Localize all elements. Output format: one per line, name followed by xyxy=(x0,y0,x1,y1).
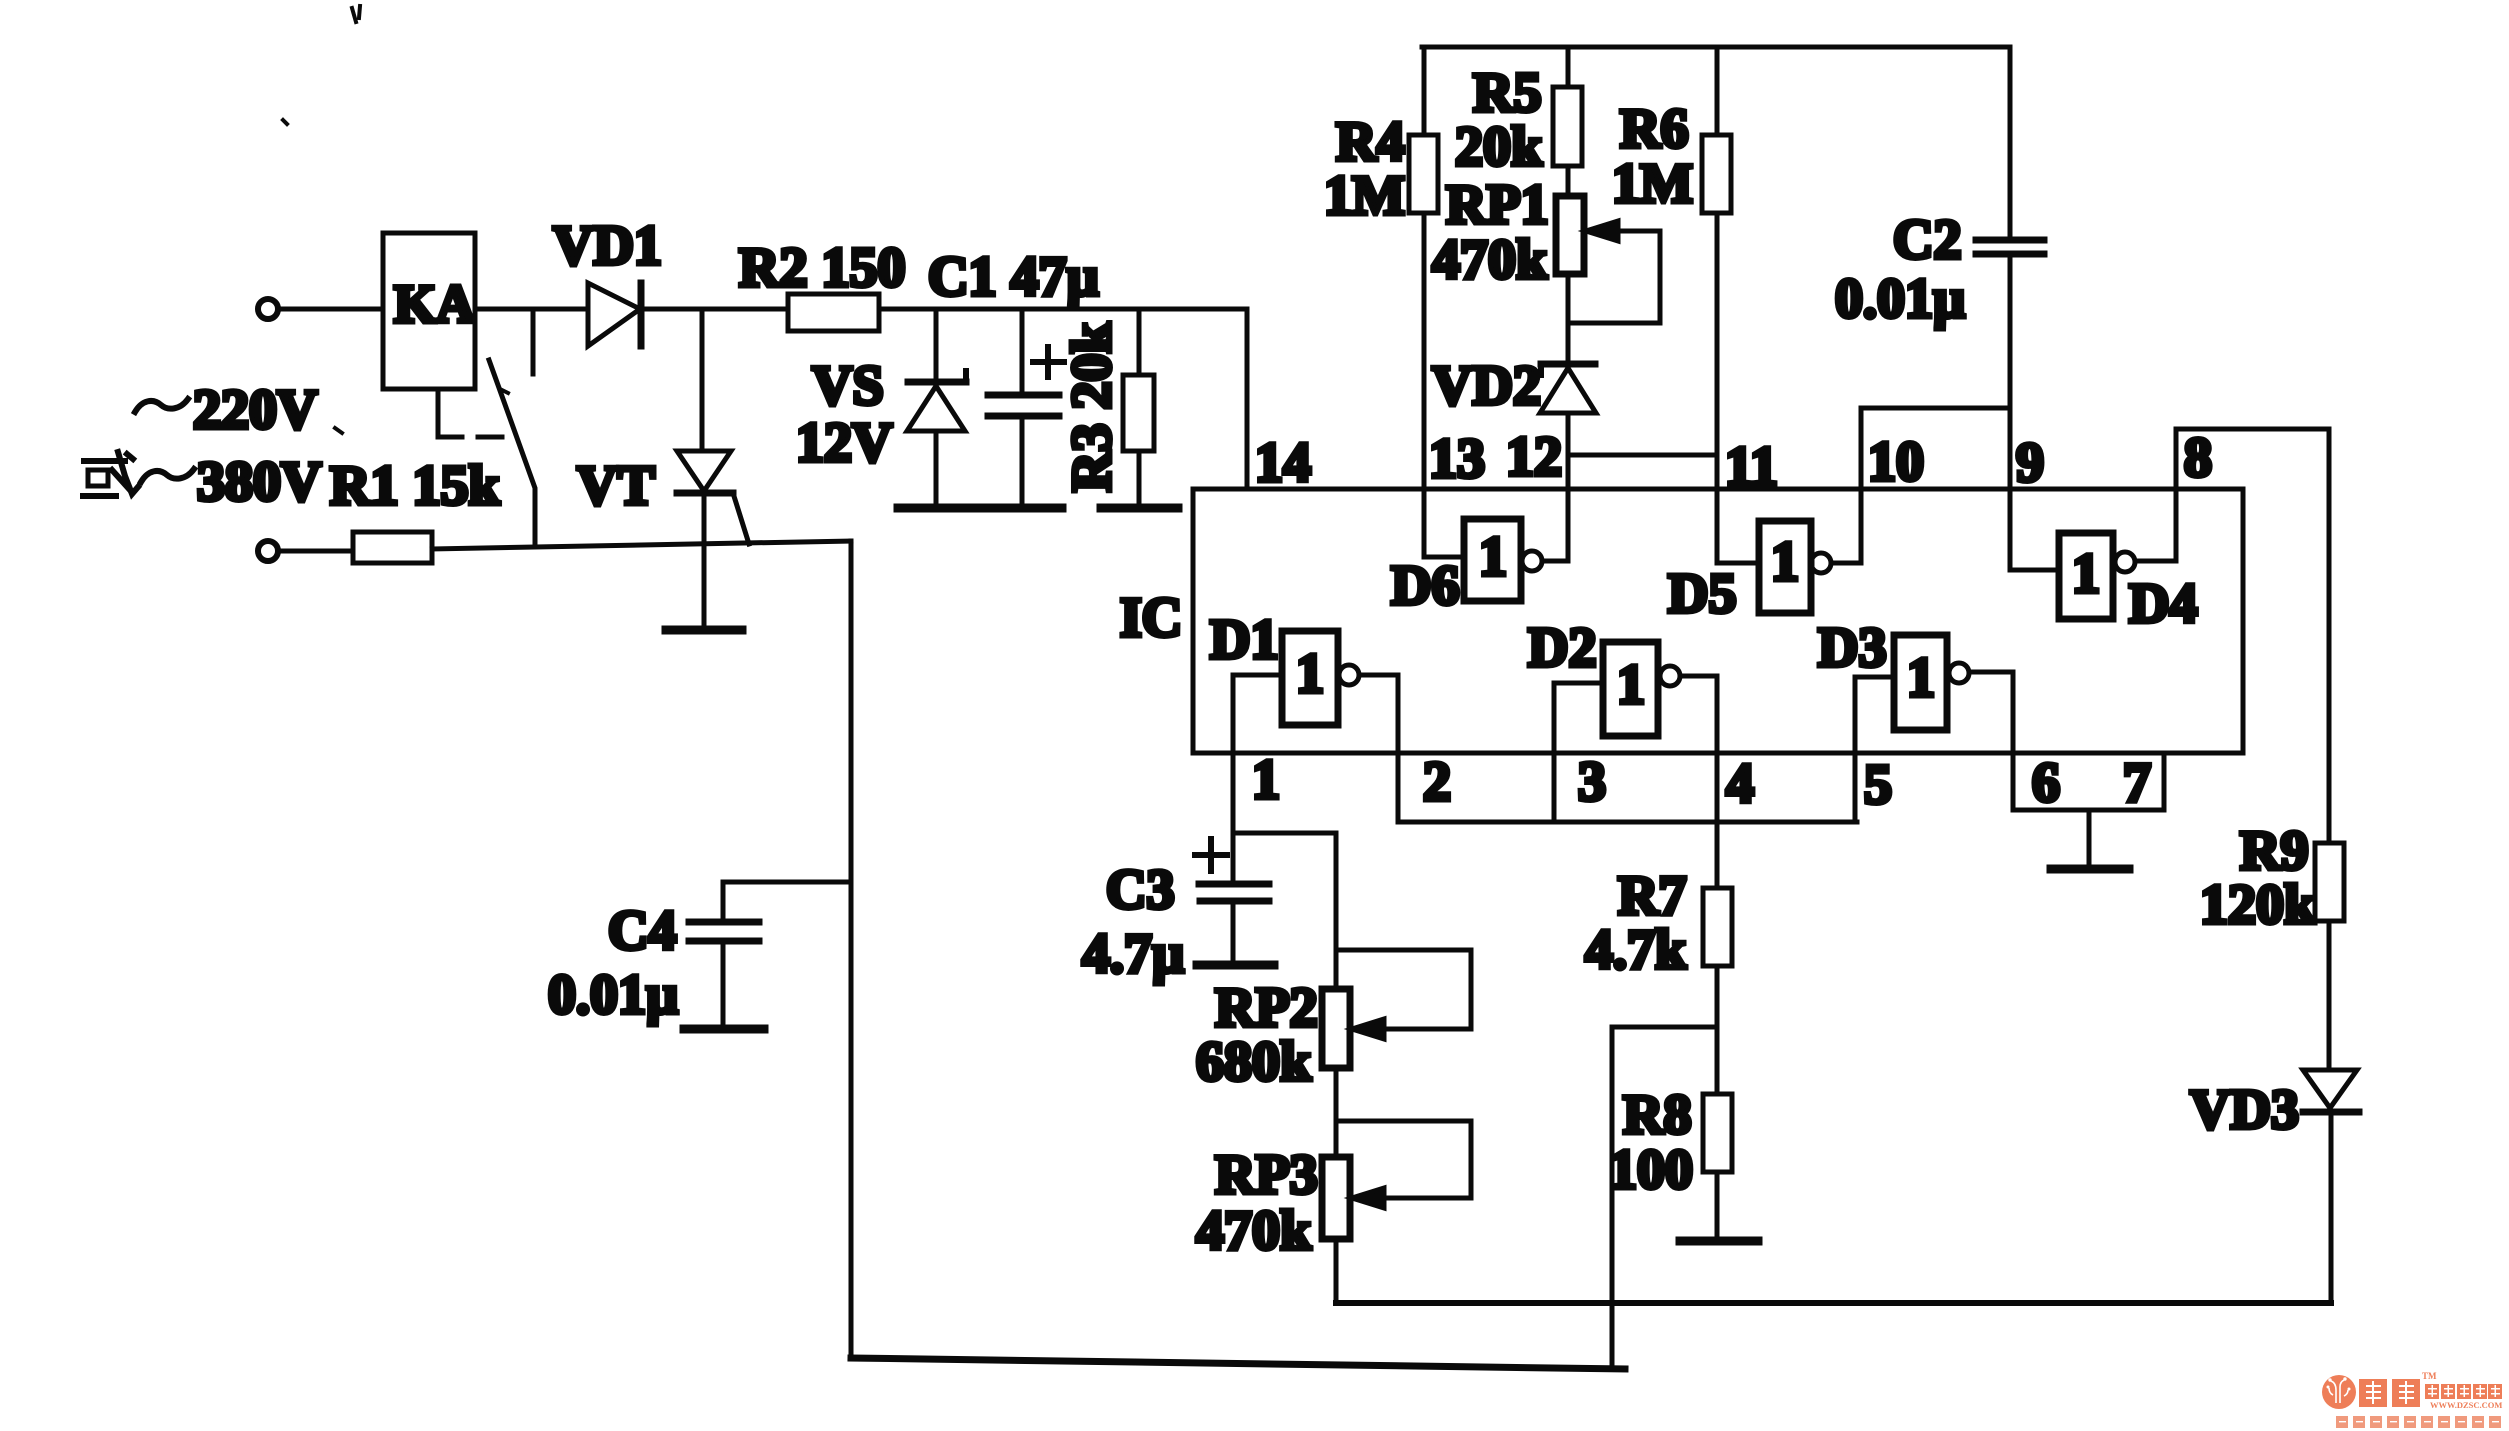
wire VD3 to bottom bus A xyxy=(2329,1112,2334,1303)
svg-text:D1: D1 xyxy=(1210,609,1278,671)
svg-text:7: 7 xyxy=(2123,752,2151,814)
KA actuator stub xyxy=(436,389,441,437)
wire pin 10 riser xyxy=(1859,408,1864,563)
watermark logo circle xyxy=(2322,1375,2356,1409)
svg-text:20k: 20k xyxy=(1455,116,1543,178)
svg-text:C2: C2 xyxy=(1893,209,1961,271)
svg-text:R6: R6 xyxy=(1620,98,1688,160)
svg-text:1M: 1M xyxy=(1324,165,1405,227)
svg-text:R4: R4 xyxy=(1336,111,1404,173)
wire R9 to VD3 xyxy=(2327,921,2332,1070)
svg-text:RP3: RP3 xyxy=(1215,1144,1318,1206)
capacitor C4 0.01u xyxy=(548,882,851,1029)
svg-text:1: 1 xyxy=(2072,543,2100,605)
svg-text:1: 1 xyxy=(1296,643,1324,705)
wire pins 6-7 join xyxy=(2013,808,2164,813)
svg-text:1: 1 xyxy=(1252,749,1280,811)
potentiometer RP2 680k xyxy=(1196,950,1471,1093)
svg-text:0.01µ: 0.01µ xyxy=(1835,268,1965,330)
IC box xyxy=(1193,489,2243,753)
svg-text:VD1: VD1 xyxy=(553,215,662,277)
svg-text:D4: D4 xyxy=(2129,573,2197,635)
svg-text:R7: R7 xyxy=(1618,865,1686,927)
svg-text:12: 12 xyxy=(1506,426,1562,488)
zener VS 12V xyxy=(796,309,966,504)
svg-text:470k: 470k xyxy=(1196,1200,1312,1262)
svg-text:0.01µ: 0.01µ xyxy=(548,964,678,1026)
wire junction link to R7-R8 xyxy=(1612,1025,1717,1030)
wire to ground pins 6-7 xyxy=(2087,810,2092,865)
resistor R5 20k xyxy=(1455,47,1582,178)
wire R1 to VT gate and corner xyxy=(432,541,851,549)
diode VD1 xyxy=(553,215,662,346)
zener VD2 xyxy=(1432,355,1596,417)
ground under R8 xyxy=(1680,1237,1758,1246)
resistor R3 20k xyxy=(1061,309,1154,504)
svg-text:13: 13 xyxy=(1429,428,1485,490)
wire T1 to KA xyxy=(279,307,383,312)
svg-text:TM: TM xyxy=(2422,1371,2437,1381)
diode VD3 xyxy=(2190,1070,2359,1141)
svg-text:C1 47µ: C1 47µ xyxy=(928,246,1099,308)
svg-text:IC: IC xyxy=(1120,587,1182,649)
svg-text:R8: R8 xyxy=(1623,1084,1691,1146)
svg-text:1: 1 xyxy=(1907,647,1935,709)
svg-text:1: 1 xyxy=(1479,526,1507,588)
wire R4 to pin 13 xyxy=(1422,213,1427,489)
wire R6 to pin 11 xyxy=(1715,213,1720,489)
svg-text:VT: VT xyxy=(577,455,655,517)
svg-text:5: 5 xyxy=(1864,754,1892,816)
resistor R4 1M xyxy=(1324,47,1438,227)
svg-text:3: 3 xyxy=(1578,751,1606,813)
potentiometer RP1 470k xyxy=(1432,174,1660,323)
label ~220V xyxy=(135,399,188,412)
resistor R9 120k xyxy=(2200,820,2344,936)
svg-text:2: 2 xyxy=(1423,751,1451,813)
thyristor VT xyxy=(577,309,749,626)
svg-text:RP1: RP1 xyxy=(1446,174,1549,236)
ground under C1 xyxy=(985,504,1062,513)
inverter D1 xyxy=(1210,609,1398,725)
wire pin 2 drop (D1 out) xyxy=(1396,675,1401,822)
wire pin 1 drop xyxy=(1231,675,1236,833)
bus pins 2-3-5 below IC xyxy=(1398,820,1857,825)
inverter D5 xyxy=(1668,489,1861,625)
capacitor C3 4.7u xyxy=(1082,833,1274,985)
svg-text:380V: 380V xyxy=(197,451,321,513)
wire right side drop to R9 xyxy=(2327,429,2332,843)
bottom bus B (left drop to riser) xyxy=(851,1358,1625,1369)
svg-text:1M: 1M xyxy=(1612,153,1693,215)
svg-text:R3 20k: R3 20k xyxy=(1061,322,1123,492)
svg-text:KA: KA xyxy=(394,274,475,334)
svg-text:100: 100 xyxy=(1609,1139,1693,1201)
wire pin 6 drop (D3 out) xyxy=(2011,672,2016,810)
svg-text:1: 1 xyxy=(1617,654,1645,716)
wire pin10 to C2 line xyxy=(1861,406,2010,411)
watermark 电子市场网 glyph blocks xyxy=(2425,1384,2502,1399)
potentiometer RP3 470k xyxy=(1196,1121,1471,1262)
inverter D4 xyxy=(2010,533,2197,635)
wire KA to VD1 xyxy=(475,307,588,312)
wire pin 14 drop xyxy=(1245,309,1250,489)
svg-text:D2: D2 xyxy=(1528,617,1596,679)
wire RP2 to RP3 xyxy=(1334,1068,1339,1157)
svg-text:8: 8 xyxy=(2184,427,2212,489)
ground under pins 6-7 xyxy=(2051,865,2129,874)
svg-text:9: 9 xyxy=(2016,432,2044,494)
svg-text:120k: 120k xyxy=(2200,874,2316,936)
KA switch arm xyxy=(489,360,535,546)
svg-text:470k: 470k xyxy=(1432,229,1548,291)
terminal T1 (upper input) xyxy=(258,299,278,319)
svg-text:4.7µ: 4.7µ xyxy=(1082,923,1184,985)
label 或~380V (或 drawn as strokes) xyxy=(83,452,138,496)
resistor R6 1M xyxy=(1612,47,1731,215)
svg-text:1: 1 xyxy=(1771,531,1799,593)
wire R7 to R8 xyxy=(1715,966,1720,1094)
svg-text:6: 6 xyxy=(2032,752,2060,814)
svg-text:C3: C3 xyxy=(1106,859,1174,921)
svg-text:4: 4 xyxy=(1726,753,1754,815)
inverter D6 xyxy=(1391,489,1568,617)
resistor R1 15k xyxy=(330,455,500,563)
watermark 维库 glyph blocks xyxy=(2359,1371,2437,1407)
wire VD2 to pin 12 xyxy=(1566,413,1571,489)
svg-text:VD3: VD3 xyxy=(2190,1079,2299,1141)
wire long left drop to bottom bus xyxy=(849,541,854,1358)
svg-text:10: 10 xyxy=(1868,431,1924,493)
resistor R2 150 xyxy=(739,237,905,331)
svg-text:R5: R5 xyxy=(1473,62,1541,124)
wire pin1 junction to RP2 chain xyxy=(1233,831,1336,836)
relay coil KA xyxy=(383,233,475,389)
KA actuator dashed link xyxy=(438,435,516,440)
svg-text:RP2: RP2 xyxy=(1215,977,1318,1039)
bottom bus A (RP3 to VD3) xyxy=(1336,1300,2331,1306)
ground under VT xyxy=(666,626,742,635)
wire riser bus B to R7-R8 junction xyxy=(1610,1027,1615,1369)
svg-text:VS: VS xyxy=(812,355,884,417)
svg-text:14: 14 xyxy=(1255,432,1311,494)
svg-text:11: 11 xyxy=(1725,436,1778,498)
ground under VS xyxy=(898,504,978,513)
wire T2 to R1 xyxy=(279,549,353,554)
svg-text:R1 15k: R1 15k xyxy=(330,455,500,517)
svg-text:220V: 220V xyxy=(193,379,317,441)
svg-text:4.7k: 4.7k xyxy=(1585,919,1687,981)
wire pin8 top link xyxy=(2176,427,2329,432)
svg-text:WWW.DZSC.COM: WWW.DZSC.COM xyxy=(2430,1400,2502,1410)
wire pin 7 drop xyxy=(2162,753,2167,810)
capacitor C1 47u xyxy=(928,246,1099,504)
svg-text:R2 150: R2 150 xyxy=(739,237,905,299)
svg-text:VD2: VD2 xyxy=(1432,355,1541,417)
wire RP1 to VD2 xyxy=(1566,274,1571,364)
KA fixed switch contact stub xyxy=(531,309,536,374)
wire R5 to RP1 xyxy=(1566,166,1571,196)
wire pin 8 riser xyxy=(2174,429,2179,561)
wire R8 to ground xyxy=(1715,1172,1720,1237)
wire R2 to pin14 drop xyxy=(879,307,1247,312)
top supply rail xyxy=(1422,45,2010,50)
resistor R8 100 xyxy=(1609,1084,1732,1201)
capacitor C2 0.01u xyxy=(1835,47,2044,330)
terminal T2 (lower input) xyxy=(258,541,278,561)
svg-text:R9: R9 xyxy=(2240,820,2308,882)
svg-text:D6: D6 xyxy=(1391,555,1459,617)
svg-text:D5: D5 xyxy=(1668,563,1736,625)
resistor R7 4.7k xyxy=(1585,865,1732,981)
svg-text:12V: 12V xyxy=(796,412,892,474)
wire VD1 to R2 xyxy=(643,307,788,312)
wire C2 to pin 9 xyxy=(2008,254,2013,570)
scan speck marks xyxy=(283,6,508,433)
inverter D3 xyxy=(1818,617,2013,822)
inverter D2 xyxy=(1528,617,1717,822)
watermark slogan blocks xyxy=(2336,1416,2501,1428)
wire chain to RP2 xyxy=(1334,833,1339,989)
wire pin12 link to pin11 xyxy=(1568,453,1717,458)
ground under R3 xyxy=(1101,504,1178,513)
wire RP3 to bottom bus xyxy=(1334,1239,1339,1303)
svg-text:C4: C4 xyxy=(608,900,676,962)
svg-text:D3: D3 xyxy=(1818,617,1886,679)
wire pin 4 column (D2 out to R7) xyxy=(1715,676,1720,888)
svg-text:680k: 680k xyxy=(1196,1031,1312,1093)
